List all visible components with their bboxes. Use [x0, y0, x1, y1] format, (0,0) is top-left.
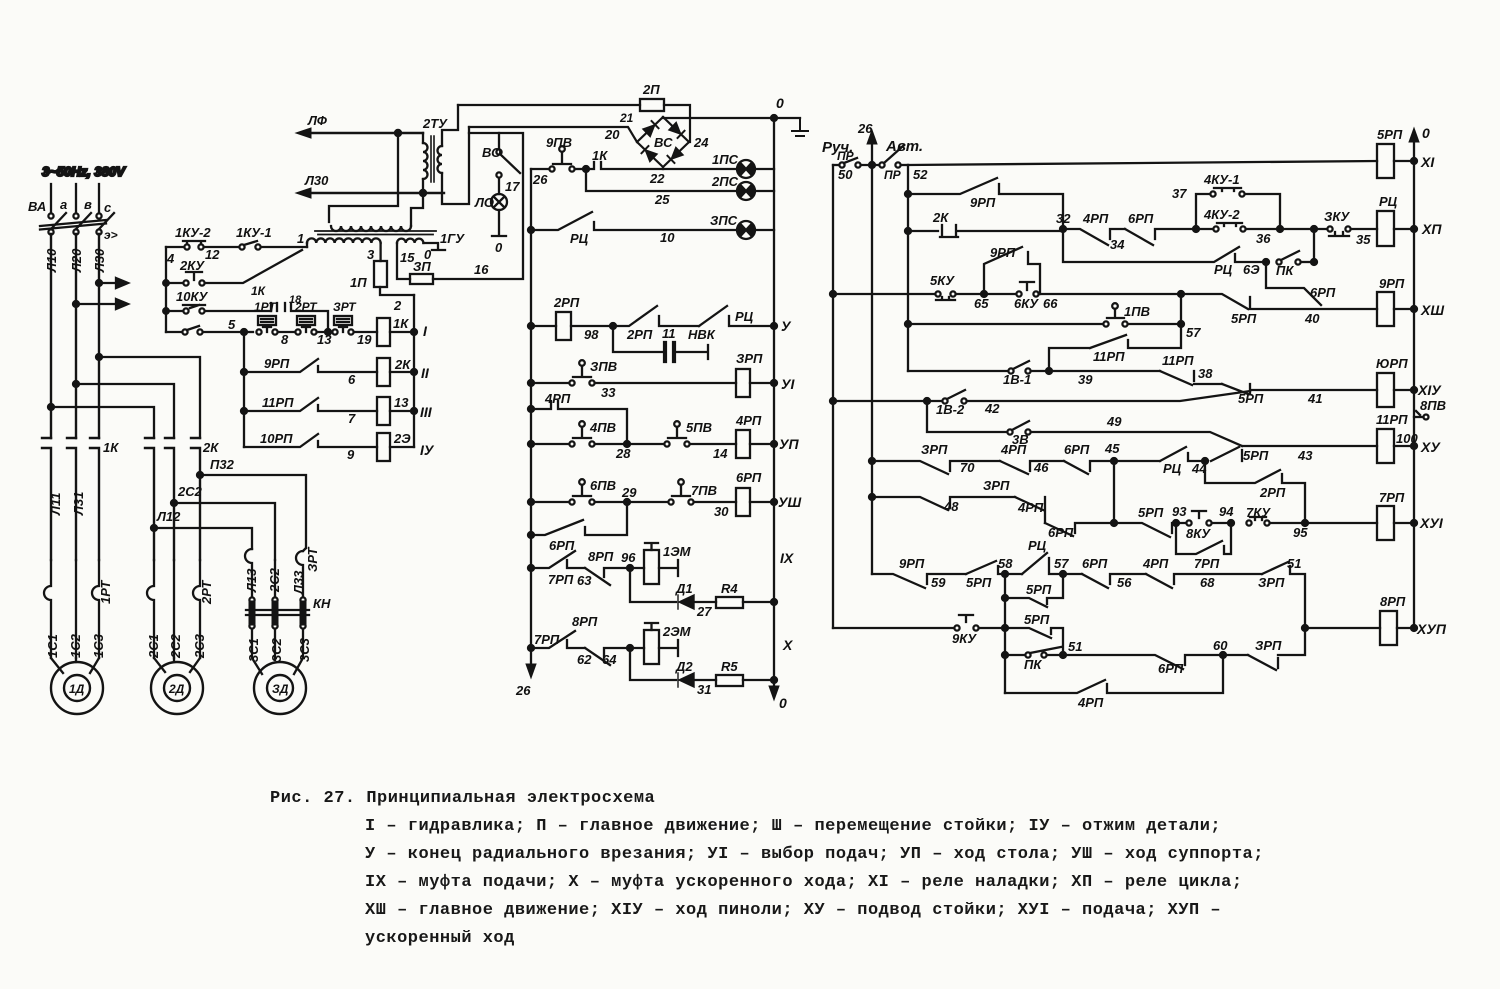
label 5 [228, 317, 236, 332]
label 9PV 26 [532, 135, 572, 187]
label 8RP 62 64 [572, 614, 617, 667]
label RC 10 [570, 230, 675, 246]
label roman XIV [1417, 382, 1442, 398]
svg-text:56: 56 [1117, 575, 1132, 590]
svg-text:19: 19 [357, 332, 372, 347]
label 4RP 68 [1142, 556, 1215, 590]
svg-text:1: 1 [297, 231, 304, 246]
label 6PV 29 [590, 478, 637, 500]
coil 2RP row V [528, 312, 613, 340]
label roman XIII [1420, 302, 1444, 318]
label 0 bottom [779, 695, 787, 711]
label KN [313, 596, 331, 611]
label 2K row XII [932, 210, 949, 225]
label 4RP coil [735, 413, 762, 428]
label 5RP 43 [1243, 448, 1313, 463]
svg-text:11РП: 11РП [1093, 349, 1125, 364]
pushbutton 2KU [166, 250, 302, 286]
lamp 2PS [737, 182, 774, 200]
svg-text:66: 66 [1043, 296, 1058, 311]
contact 4RP row 693 [1005, 655, 1223, 693]
svg-text:IУ: IУ [420, 442, 435, 458]
contact 5RP row 574 [966, 561, 1005, 574]
contactor 1K main contacts [42, 438, 99, 560]
svg-text:9КУ: 9КУ [952, 631, 977, 646]
thermal contact 1RT [244, 316, 294, 335]
contact NVK row V [699, 306, 777, 329]
wire bridge plus to 0 rail [663, 115, 800, 121]
svg-text:4РП: 4РП [735, 413, 762, 428]
contact 4RP row XVI [1015, 497, 1045, 523]
caption: figure text [270, 789, 655, 808]
svg-text:3С3: 3С3 [297, 637, 312, 662]
coil 5RP row XI [1377, 144, 1417, 178]
contact 5RP branch 598 [1005, 574, 1063, 607]
node labels BA a b c [28, 197, 118, 242]
heater element 1RT bumps [44, 560, 99, 658]
contact 4RP row XV left [1000, 461, 1064, 474]
label 13 coil [394, 395, 409, 410]
svg-text:3С1: 3С1 [246, 638, 261, 662]
svg-text:25: 25 [654, 192, 670, 207]
label Avt PR 52 [884, 138, 928, 182]
svg-text:2РТ: 2РТ [199, 580, 214, 605]
label 4KU-1 37 [1172, 172, 1240, 201]
label 5KU 65 [930, 273, 989, 311]
selector PR auto position [879, 146, 908, 168]
svg-text:2РП: 2РП [1259, 485, 1286, 500]
svg-text:39: 39 [1078, 372, 1093, 387]
svg-text:9РП: 9РП [990, 245, 1016, 260]
wire motor1 leads [51, 658, 99, 673]
svg-text:13: 13 [394, 395, 409, 410]
svg-text:32: 32 [1056, 211, 1071, 226]
transformer 1GU secondary winding left [307, 238, 381, 261]
svg-text:26: 26 [857, 121, 873, 136]
label 1RT rotated [98, 580, 113, 604]
svg-text:2С2: 2С2 [267, 567, 282, 593]
svg-text:ЗПВ: ЗПВ [590, 359, 617, 374]
heater element 2RT bumps [147, 560, 200, 658]
svg-text:УП: УП [779, 436, 799, 452]
label 6RP row XII [1128, 211, 1154, 226]
contact 10KU [166, 305, 271, 314]
svg-text:4КУ-2: 4КУ-2 [1203, 207, 1240, 222]
label L12 [156, 509, 181, 524]
svg-text:4РП: 4РП [1142, 556, 1169, 571]
contact 5RP row XIII [1178, 291, 1377, 309]
coil 2K [377, 358, 414, 386]
svg-text:0: 0 [779, 695, 787, 711]
label 1K coil [393, 298, 409, 331]
svg-text:26: 26 [515, 683, 531, 698]
label 3RP 51 [1258, 556, 1301, 590]
label 10RP coil [1376, 356, 1408, 371]
svg-text:с: с [104, 200, 112, 215]
label 15 0 [400, 247, 432, 265]
label 3RP 70 [921, 442, 975, 475]
capacitor NVK branch [613, 329, 708, 361]
svg-text:70: 70 [960, 460, 975, 475]
svg-text:ЗРП: ЗРП [1255, 638, 1282, 653]
pushbutton 9KU row XVII [833, 615, 1005, 631]
svg-text:Л11: Л11 [48, 493, 63, 516]
label 1PV 57 [1124, 304, 1201, 340]
svg-text:2ПС: 2ПС [711, 174, 739, 189]
label L30 arrow [304, 173, 329, 188]
svg-text:ПК: ПК [1024, 657, 1042, 672]
label 7RP loop [1194, 556, 1220, 571]
svg-text:31: 31 [697, 682, 711, 697]
label 1K [103, 440, 119, 455]
label P32 [210, 457, 235, 472]
label 1KU-2 [166, 225, 220, 266]
label 6RP 45 [1064, 441, 1120, 457]
svg-text:III: III [420, 404, 433, 420]
label D1 R4 27 [675, 581, 738, 619]
label 9RP top [970, 195, 996, 210]
svg-text:2С1: 2С1 [146, 634, 161, 659]
node 32 [1060, 226, 1066, 232]
label RC 57 [1028, 538, 1069, 571]
label 9KU [952, 631, 977, 646]
label 2RP coil 98 [553, 295, 599, 342]
label 23 coil [393, 431, 411, 446]
label 5RP 40 [1231, 311, 1320, 326]
pushbutton 9PV [531, 146, 583, 171]
svg-text:7ПВ: 7ПВ [691, 483, 717, 498]
svg-text:2К: 2К [932, 210, 949, 225]
wire fanout L30 to 2K column [96, 354, 200, 438]
label 9RP [264, 356, 356, 387]
svg-text:5КУ: 5КУ [930, 273, 955, 288]
contact 9RP row 574 [872, 574, 966, 588]
wire L10 L20 L30 verticals [51, 234, 99, 438]
label 8KU 94 [1186, 504, 1234, 541]
wire lamp row 2 [586, 172, 737, 191]
contact 5RP row XV [1211, 446, 1377, 461]
svg-text:9ПВ: 9ПВ [546, 135, 572, 150]
motor 3D [254, 662, 306, 714]
svg-text:ХП: ХП [1421, 221, 1442, 237]
contact 11RP rung III [244, 398, 377, 411]
label 5RP 58 [966, 556, 1013, 590]
coil 4RP row VII [736, 430, 777, 458]
contact row 5 [166, 326, 244, 335]
svg-text:РЦ: РЦ [570, 231, 589, 246]
svg-text:1ПВ: 1ПВ [1124, 304, 1150, 319]
svg-text:45: 45 [1104, 441, 1120, 456]
node 57 [1060, 571, 1082, 577]
label roman XII [1421, 221, 1442, 237]
svg-text:Авт.: Авт. [885, 138, 923, 155]
svg-text:2С2: 2С2 [177, 484, 203, 499]
contact 1KU-2 [166, 241, 239, 250]
svg-text:1П: 1П [350, 275, 367, 290]
svg-text:8РП: 8РП [572, 614, 598, 629]
contact 3RP row XVI [872, 497, 1015, 510]
label 6RP 60 [1158, 638, 1228, 676]
label RC coil [1379, 194, 1398, 209]
coil 23 [377, 433, 414, 461]
svg-text:93: 93 [1172, 504, 1187, 519]
pushbutton 8KU [1173, 511, 1228, 526]
svg-text:ХШ: ХШ [1420, 302, 1444, 318]
svg-text:41: 41 [1307, 391, 1322, 406]
svg-text:3: 3 [367, 247, 375, 262]
svg-text:1КУ-1: 1КУ-1 [236, 225, 272, 240]
selector PR manual position [833, 158, 879, 168]
svg-text:51: 51 [1068, 639, 1082, 654]
wire bridge bottom to lamp row [662, 167, 664, 169]
svg-text:7РП: 7РП [1194, 556, 1220, 571]
svg-text:8РП: 8РП [588, 549, 614, 564]
pushbutton 1PV row [908, 294, 1184, 327]
label 6RP bypass [549, 538, 575, 553]
svg-text:4: 4 [166, 251, 175, 266]
svg-text:ЗРП: ЗРП [1258, 575, 1285, 590]
solenoid 2EM [627, 623, 678, 664]
svg-text:98: 98 [584, 327, 599, 342]
svg-text:4РП: 4РП [1000, 442, 1027, 457]
label 2D [168, 682, 185, 696]
svg-text:6РП: 6РП [1128, 211, 1154, 226]
svg-text:29: 29 [621, 485, 637, 500]
label 2TU [422, 116, 448, 131]
wire arrow tap from L20 [73, 299, 128, 309]
svg-text:1Д: 1Д [69, 682, 85, 696]
contact 2K row XII [908, 225, 1063, 237]
svg-text:20: 20 [604, 127, 620, 142]
label 2PS 25 [654, 174, 739, 207]
node 44 [1202, 458, 1208, 464]
svg-text:11РП: 11РП [1376, 412, 1408, 427]
svg-text:4ПВ: 4ПВ [589, 420, 616, 435]
label 1KU-1 [236, 225, 304, 246]
svg-text:в: в [84, 197, 92, 212]
label 4RP bottom [1077, 695, 1104, 710]
svg-text:11РП: 11РП [262, 395, 294, 410]
svg-text:Л10: Л10 [44, 248, 59, 273]
lamp 1PS [737, 160, 774, 178]
contact 1KU-1 [239, 241, 307, 250]
contact 4KU-1 branch [1193, 188, 1280, 232]
svg-text:4РП: 4РП [1082, 211, 1109, 226]
label 4PV 28 [589, 420, 631, 461]
transformer 1GU core [315, 231, 436, 235]
contact 3V row 49 [927, 401, 1242, 446]
label 10KU [176, 289, 208, 304]
svg-text:51: 51 [1287, 556, 1301, 571]
coil 6RP row VIII [736, 488, 777, 516]
node 58 [1002, 571, 1022, 577]
label 5PV 14 [686, 420, 728, 461]
pushbutton 6PV row VIII [528, 479, 668, 505]
terminal block KN [246, 597, 309, 628]
svg-text:ХУІ: ХУІ [1419, 515, 1444, 531]
svg-text:2К: 2К [394, 357, 411, 372]
svg-text:33: 33 [601, 385, 616, 400]
svg-text:5: 5 [228, 317, 236, 332]
label 3 [367, 247, 375, 262]
contact 7KU [1228, 517, 1377, 526]
label 5RP 93 [1138, 504, 1187, 520]
svg-text:Х: Х [782, 637, 794, 653]
svg-text:1С3: 1С3 [91, 633, 106, 658]
svg-text:11: 11 [662, 326, 676, 341]
label 6RP drop [1310, 285, 1336, 300]
wire phase stubs [51, 184, 99, 212]
svg-text:4РП: 4РП [1077, 695, 1104, 710]
contact RC row 574 [1022, 553, 1061, 574]
label PK 51 [1024, 639, 1082, 672]
label 9RP coil [1379, 276, 1405, 291]
label 3PS [710, 213, 738, 228]
contact 4KU-2 row XII [1196, 223, 1311, 232]
label 11RP [262, 395, 356, 426]
svg-text:7: 7 [348, 411, 356, 426]
wire motor2 leads [154, 658, 200, 672]
svg-text:10КУ: 10КУ [176, 289, 208, 304]
contact 3RP row 574 [1262, 562, 1305, 628]
label roman X [782, 637, 794, 653]
label roman XVII [1416, 621, 1447, 637]
svg-text:4КУ-1: 4КУ-1 [1203, 172, 1240, 187]
svg-text:I: I [423, 323, 428, 339]
svg-text:2РП: 2РП [626, 327, 653, 342]
svg-text:65: 65 [974, 296, 989, 311]
svg-text:1С2: 1С2 [68, 633, 83, 658]
svg-text:5РП: 5РП [1231, 311, 1257, 326]
wire control box left rail [163, 247, 169, 332]
svg-text:РЦ: РЦ [1214, 262, 1233, 277]
label 7PV 30 [691, 483, 729, 519]
svg-text:КН: КН [313, 596, 331, 611]
svg-text:8КУ: 8КУ [1186, 526, 1211, 541]
svg-text:1С1: 1С1 [45, 634, 60, 658]
svg-text:Л20: Л20 [69, 248, 84, 273]
svg-text:6РП: 6РП [1158, 661, 1184, 676]
svg-text:5РП: 5РП [966, 575, 992, 590]
pushbutton 3PV row VI [528, 360, 736, 386]
svg-text:1ЭМ: 1ЭМ [663, 544, 692, 559]
wire labels L11 L31 [48, 492, 86, 516]
contact 6RP row XV left [1064, 461, 1114, 474]
contact 6RP bypass row VIII [528, 505, 627, 538]
label 3RT [333, 300, 372, 347]
svg-text:Д2: Д2 [675, 659, 693, 674]
wire top 0 line [458, 105, 690, 142]
label 3PV 33 [590, 359, 617, 400]
svg-text:36: 36 [1256, 231, 1271, 246]
svg-text:13: 13 [317, 332, 332, 347]
label PK [1276, 263, 1294, 278]
label 2RP contact 11 [626, 326, 676, 342]
svg-text:ЛО: ЛО [474, 195, 494, 210]
svg-text:ХУП: ХУП [1416, 621, 1447, 637]
svg-text:9: 9 [347, 447, 355, 462]
svg-text:28: 28 [615, 446, 631, 461]
svg-text:7РП: 7РП [548, 572, 574, 587]
svg-text:ХУ: ХУ [1420, 439, 1441, 455]
transformer 2TU [423, 105, 469, 204]
svg-text:5РП: 5РП [1243, 448, 1269, 463]
thermal contact 3RT [332, 316, 377, 335]
label 8RP coil [1380, 594, 1406, 609]
pushbutton 6KU row XIII [981, 282, 1181, 297]
coil 10RP row XIV [1377, 373, 1417, 407]
svg-text:34: 34 [1110, 237, 1125, 252]
svg-text:1ПС: 1ПС [712, 152, 739, 167]
label 2K coil [394, 357, 411, 372]
label 10RP [260, 431, 355, 462]
contact PK branch [1263, 229, 1317, 265]
svg-text:5ПВ: 5ПВ [686, 420, 712, 435]
label 32 [1056, 211, 1071, 226]
wire mid left rail 26 [526, 169, 536, 678]
node XVII [1302, 625, 1380, 631]
label 11RP coil 100 [1376, 412, 1418, 446]
svg-text:П32: П32 [210, 457, 235, 472]
svg-text:ЗП: ЗП [413, 259, 431, 274]
label 2RT [294, 300, 332, 347]
label 1RT [254, 300, 289, 347]
svg-text:5РП: 5РП [1138, 505, 1164, 520]
svg-text:У: У [781, 318, 792, 334]
wire motor3 leads [252, 629, 303, 674]
svg-text:5РП: 5РП [1026, 582, 1052, 597]
label 6KU 66 [1014, 296, 1058, 311]
rectifier VS bridge [637, 117, 689, 167]
label 2KU [179, 258, 205, 273]
wire right rail 0 arrow [1409, 128, 1419, 628]
solenoid 1EM [627, 543, 678, 584]
svg-text:6РП: 6РП [1064, 442, 1090, 457]
svg-text:Л30: Л30 [304, 173, 329, 188]
label LO 0 [474, 195, 503, 255]
svg-text:ВА: ВА [28, 199, 46, 214]
switch BA (3-pole knife switch) [40, 213, 114, 235]
label 2EM [662, 624, 692, 639]
contact 9RP top [908, 178, 1063, 229]
svg-text:35: 35 [1356, 232, 1371, 247]
label 8PV [1420, 398, 1446, 413]
svg-text:РЦ: РЦ [1028, 538, 1047, 553]
svg-text:ЗКУ: ЗКУ [1324, 209, 1350, 224]
svg-text:6ПВ: 6ПВ [590, 478, 616, 493]
label 3RP 48 [943, 478, 1010, 514]
svg-text:4РП: 4РП [1017, 500, 1044, 515]
svg-text:43: 43 [1297, 448, 1313, 463]
svg-text:6КУ: 6КУ [1014, 296, 1039, 311]
svg-text:ВО: ВО [482, 145, 501, 160]
coil 1K [377, 318, 414, 346]
svg-text:2РТ: 2РТ [294, 300, 318, 314]
wire labels 2S1 2S2 2S3 [146, 633, 207, 659]
label 3V 49 [1012, 414, 1122, 447]
svg-text:R5: R5 [721, 659, 738, 674]
label roman IV [420, 442, 435, 458]
label LF [307, 113, 328, 128]
wire left rail 833 [830, 165, 836, 628]
label 3D [272, 682, 289, 696]
label NVK RC [688, 309, 754, 342]
label 1D [69, 682, 85, 696]
svg-text:ЗПС: ЗПС [710, 213, 738, 228]
ground symbol [792, 118, 808, 136]
contact 2RP branch [1205, 461, 1305, 523]
svg-text:8РП: 8РП [1380, 594, 1406, 609]
